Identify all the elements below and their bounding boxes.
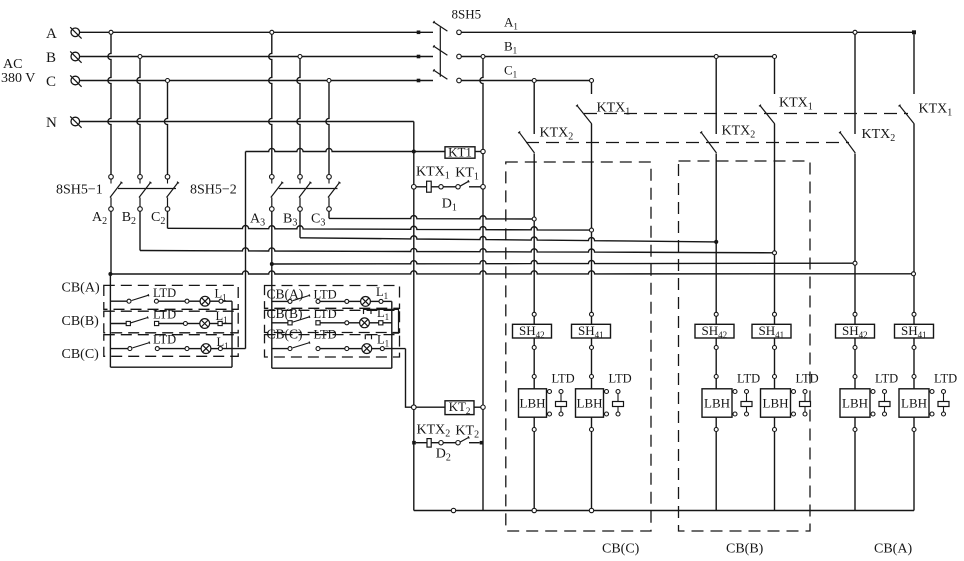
svg-text:KTX1: KTX1 [597, 101, 631, 118]
switch 8SH5 pole B [433, 45, 461, 59]
label A2 [92, 210, 107, 227]
switch box CB(B) SH41 [752, 323, 791, 340]
svg-text:LBH: LBH [520, 396, 546, 411]
node CB(C) SH42 upper [532, 312, 536, 316]
label 8SH5-2 [190, 183, 237, 198]
label KTX1 (CB B) [779, 96, 813, 113]
contact KTX1 of CB(A) [899, 105, 915, 124]
wire A1 [461, 31, 914, 33]
linkage 8SH5-1 [118, 188, 176, 190]
lamp row3 box2 (switch, LTD, lamp L1) [272, 342, 406, 354]
node CB(C) SH41 below switch [590, 346, 594, 350]
label LTD box1 row1 [153, 286, 176, 300]
wire box2 bottom [272, 367, 392, 369]
wire D2 row [416, 442, 480, 444]
label A1 [504, 15, 518, 32]
label CB(A) box2 [267, 287, 304, 302]
ballast LBH (CB(C) SH41) [576, 389, 604, 417]
svg-text:CB(C): CB(C) [602, 542, 640, 557]
svg-text:KTX1: KTX1 [779, 96, 813, 113]
terminal B (AC supply) [70, 51, 81, 62]
junction line3 end [714, 240, 718, 244]
junction KT1-N [412, 150, 416, 154]
wire drop B to 8SH5-2 [297, 59, 300, 175]
label C1 [504, 63, 517, 80]
terminal D2 left [412, 441, 416, 445]
enclosure CB(A) row1 (dashed) [104, 285, 238, 309]
svg-text:8SH5: 8SH5 [452, 7, 482, 22]
svg-text:LBH: LBH [577, 396, 603, 411]
label L1 box1 row2 [216, 309, 228, 325]
svg-text:8SH5−2: 8SH5−2 [190, 183, 237, 198]
label L1 box2 row3 [377, 333, 389, 349]
svg-text:LTD: LTD [934, 372, 957, 386]
lamp holder bracket row3 [365, 335, 371, 339]
wire D1 row [416, 186, 481, 188]
label LTD box1 row3 [153, 333, 176, 347]
node line6 end [912, 272, 916, 276]
wire C3 feeder (line1) [329, 211, 534, 219]
svg-text:KT1: KT1 [448, 145, 472, 160]
label KTX2 (CB C) [540, 126, 574, 143]
svg-text:B: B [46, 50, 56, 66]
wire column CB(A)-SH42 [854, 35, 856, 325]
contact KTX2 of CB(C) [518, 132, 534, 154]
label B2 [122, 210, 136, 227]
lamp row2 box1 (switch, LTD, lamp L1) [110, 316, 232, 328]
node bus left [451, 508, 455, 512]
svg-text:KTX1: KTX1 [416, 165, 450, 182]
node CB(B) SH42 below ballast [714, 428, 718, 432]
svg-text:A: A [46, 26, 57, 42]
wire box1 right [231, 301, 233, 367]
node CB(C) SH41 below ballast [590, 428, 594, 432]
svg-text:CB(B): CB(B) [62, 314, 100, 329]
svg-text:CB(A): CB(A) [62, 281, 100, 296]
lamp row1 box2 (switch, LTD, lamp L1) [272, 294, 392, 306]
node CB(A) SH42 above ballast [853, 375, 857, 379]
svg-text:C: C [46, 74, 56, 90]
label D1 [442, 197, 457, 214]
node CB(C) SH41 upper [590, 312, 594, 316]
node C1 end [590, 79, 594, 83]
lamp row1 box1 (switch, LTD, lamp L1) [110, 294, 232, 306]
node CB(A) SH42 upper [853, 312, 857, 316]
node KT2 left [412, 405, 417, 410]
wire drop C to 8SH5-2 [326, 83, 329, 175]
node line5 end [853, 261, 857, 265]
wire bottom bus [414, 510, 914, 512]
enclosure CB(C) row3 box2 (dashed) [265, 335, 400, 357]
wire B1 [461, 56, 774, 58]
svg-text:LBH: LBH [704, 396, 730, 411]
label B [46, 50, 56, 66]
node CB(B) SH41 upper [773, 312, 777, 316]
label LTD (CB(C) SH42) [552, 372, 575, 386]
label KT1 (D1 row) [455, 166, 479, 183]
label CB(C) box2 [267, 327, 303, 342]
starter LTD (CB(C) SH42) [547, 390, 567, 417]
terminal A (AC supply) [70, 27, 81, 38]
node CB(A) SH41 above ballast [912, 375, 916, 379]
terminal square B [417, 55, 421, 59]
wire holder row2 return [371, 309, 399, 333]
svg-text:LTD: LTD [314, 288, 337, 302]
wire neutral N [80, 121, 414, 123]
wire C2 feeder (line2) [168, 211, 592, 230]
wire column CB(C)-SH41 [591, 83, 593, 325]
label L1 box1 row1 [215, 287, 227, 303]
svg-text:LBH: LBH [842, 396, 868, 411]
lamp row2 box2 (switch, LTD, lamp L1) [272, 316, 392, 328]
label KTX1 (CB A) [919, 102, 953, 119]
wire KT1 left [246, 148, 446, 151]
switch 8SH5-2 pole B [298, 175, 312, 212]
switch 8SH5 pole A [433, 21, 461, 35]
terminal square C [417, 79, 421, 83]
wire drop A to 8SH5-2 [269, 35, 272, 175]
label L1 box1 row3 [217, 335, 229, 351]
wire box2 left feed [271, 264, 273, 368]
wire phase C to switch [80, 80, 433, 82]
label CB(A) [874, 542, 912, 557]
switch 8SH5-1 pole C [165, 175, 179, 212]
wire drop B to 8SH5-1 [137, 59, 140, 175]
wire KT1 feed vertical [245, 152, 247, 349]
node CB(B) SH42 upper [714, 312, 718, 316]
svg-text:LTD: LTD [153, 308, 176, 322]
node KT1-B1 [481, 149, 485, 153]
svg-text:8SH5−1: 8SH5−1 [56, 183, 103, 198]
node CB(A) SH41 below ballast [912, 428, 916, 432]
wire phase B to switch [80, 56, 433, 58]
svg-text:CB(A): CB(A) [874, 542, 912, 557]
node CB(C) SH42 below ballast [532, 428, 536, 432]
node tap A-bank2 [270, 30, 274, 34]
terminal square A1 end [912, 30, 916, 34]
node CB(A) SH41 below switch [912, 346, 916, 350]
switch box CB(A) SH41 [895, 323, 934, 340]
ballast LBH (CB(B) SH41) [761, 389, 791, 417]
svg-text:CB(C): CB(C) [267, 327, 303, 342]
svg-text:LTD: LTD [153, 286, 176, 300]
label D2 [436, 447, 451, 464]
wire column CB(B)-SH42 [715, 59, 717, 325]
lamp row3 box1 (switch, LTD, lamp L1) [110, 342, 245, 354]
label C [46, 74, 56, 90]
label A3 [250, 212, 265, 229]
node tap C-bank1 [166, 79, 170, 83]
wire B3 feeder (line3) [300, 211, 716, 242]
node line2 end [590, 228, 594, 232]
relay coil KT2 [445, 399, 474, 416]
wire box2 row3 to KT2 [406, 349, 412, 408]
svg-text:LBH: LBH [763, 396, 789, 411]
label KTX1 (D1 row) [416, 165, 450, 182]
label KT2 (D2 row) [455, 424, 479, 441]
switch 8SH5-1 pole B [138, 175, 152, 212]
switch 8SH5 linkage bar [439, 27, 441, 77]
wire column CB(A) SH42 lower [854, 338, 856, 511]
label LTD box2 row1 [314, 288, 337, 302]
switch box CB(C) SH41 [572, 323, 611, 340]
starter LTD (CB(C) SH41) [604, 390, 624, 417]
svg-text:N: N [46, 115, 57, 131]
label N [46, 115, 57, 131]
node tap C-bank2 [327, 79, 331, 83]
label A [46, 26, 57, 42]
label CB(B) [726, 542, 764, 557]
starter LTD (CB(A) SH42) [870, 390, 890, 417]
ballast LBH (CB(C) SH42) [519, 389, 547, 417]
label C2 [151, 210, 165, 227]
contact KTX1 of CB(B) [759, 105, 775, 124]
junction A3 [270, 262, 274, 266]
enclosure CB(B) row2 (dashed) [104, 311, 238, 333]
wire column CB(B) SH42 lower [715, 338, 717, 511]
label KTX2 (D2 row) [417, 423, 451, 440]
wire B1 vertical [480, 59, 483, 511]
terminal square A [417, 31, 421, 35]
switch 8SH5 pole C [433, 69, 461, 83]
svg-text:CB(B): CB(B) [726, 542, 764, 557]
wire N vertical [413, 122, 415, 511]
contact KTX1 of CB(C) [576, 105, 592, 124]
wire drop C to 8SH5-1 [164, 83, 167, 175]
linkage KTX2 (dashed) [526, 142, 849, 144]
node CB(C) SH42 above ballast [532, 375, 536, 379]
linkage 8SH5-2 [279, 188, 338, 190]
node tap B-bank2 [298, 55, 302, 59]
switch box CB(B) SH42 [695, 323, 734, 340]
node CB(A) SH41 upper [912, 312, 916, 316]
node line1 end [532, 217, 536, 221]
lamp holder bracket row2 [364, 309, 372, 314]
wire A2 feeder (line6) [110, 211, 913, 274]
terminal D2 right [480, 441, 484, 445]
node CB(A) SH42 below switch [853, 346, 857, 350]
node CB(C) SH42 below switch [532, 346, 536, 350]
svg-text:KTX2: KTX2 [722, 124, 756, 141]
label LTD box1 row2 [153, 308, 176, 322]
svg-text:KTX1: KTX1 [919, 102, 953, 119]
wire KT1 right [475, 151, 481, 153]
starter LTD (CB(B) SH41) [791, 390, 811, 417]
distribution box CB(C) (dashed) [506, 162, 651, 531]
wire A3 feeder (line5) [272, 211, 855, 264]
label KTX2 (CB B) [722, 124, 756, 141]
wire KT2 left [416, 406, 445, 408]
wire box2 right [391, 301, 393, 368]
node CB(B) SH42 below switch [714, 346, 718, 350]
wire box1 left feed [109, 274, 111, 367]
svg-text:LBH: LBH [901, 396, 927, 411]
node D1 right [481, 185, 486, 190]
label LTD (CB(C) SH41) [609, 372, 632, 386]
wire column CB(C) SH41 lower [591, 338, 593, 511]
terminal N (AC supply) [70, 116, 81, 127]
node tap A-bank1 [109, 30, 113, 34]
svg-text:LTD: LTD [314, 328, 337, 342]
node bus CB(C)-SH42 [532, 508, 536, 512]
svg-text:KTX2: KTX2 [540, 126, 574, 143]
ballast LBH (CB(B) SH42) [702, 389, 732, 417]
switch 8SH5-2 pole A [270, 175, 284, 212]
ballast LBH (CB(A) SH42) [840, 389, 870, 417]
wire C1 [461, 80, 591, 82]
lamp D1 [427, 181, 432, 192]
svg-text:CB(C): CB(C) [62, 347, 100, 362]
node B1 end [773, 55, 777, 59]
node bus CB(C)-SH41 [589, 508, 593, 512]
label B1 [504, 39, 517, 56]
svg-text:CB(B): CB(B) [267, 306, 303, 321]
wire column CB(A)-SH41 [913, 34, 915, 324]
enclosure CB(B) row2 box2 (dashed) [265, 310, 400, 332]
switch box CB(C) SH42 [513, 323, 552, 340]
node CB(C) SH41 above ballast [590, 375, 594, 379]
wire column CB(B) SH41 lower [774, 338, 776, 511]
node CB(B) SH42 above ballast [714, 375, 718, 379]
label LTD (CB(A) SH41) [934, 372, 957, 386]
wire column CB(C) SH42 lower [533, 338, 535, 511]
terminal C (AC supply) [70, 75, 81, 86]
junction A2 [108, 272, 112, 276]
relay coil KT1 [445, 145, 475, 160]
label LTD box2 row2 [314, 307, 337, 321]
node CB(A) SH42 below ballast [853, 428, 857, 432]
label 8SH5-1 [56, 183, 103, 198]
svg-text:LTD: LTD [552, 372, 575, 386]
label CB(A) box1 [62, 281, 100, 296]
label CB(B) box2 [267, 306, 303, 321]
enclosure CB(C) row3 (dashed) [104, 335, 238, 357]
node D1 left [412, 185, 417, 190]
svg-text:KTX2: KTX2 [862, 127, 896, 144]
node A1-CB(A) [853, 30, 857, 34]
wire column CB(B)-SH41 [774, 59, 776, 325]
node CB(B) SH41 above ballast [773, 375, 777, 379]
node KT2-B1 [481, 405, 485, 409]
switch 8SH5-2 pole C [327, 175, 341, 212]
wire box1 bottom [110, 366, 232, 368]
wire column CB(C)-SH42 [533, 83, 535, 325]
label KTX1 (CB C) [597, 101, 631, 118]
label C3 [311, 212, 325, 229]
starter LTD (CB(B) SH42) [732, 390, 752, 417]
contact KT2 (D2 row) [439, 436, 470, 445]
enclosure CB(A) row1 box2 (dashed) [265, 286, 400, 309]
svg-text:LTD: LTD [153, 333, 176, 347]
label LTD (CB(B) SH41) [796, 372, 819, 386]
label KTX2 (CB A) [862, 127, 896, 144]
svg-text:LTD: LTD [875, 372, 898, 386]
label LTD box2 row2 [314, 328, 337, 342]
label LTD (CB(A) SH42) [875, 372, 898, 386]
node C1-CB(C) [532, 79, 536, 83]
contact KTX2 of CB(B) [700, 132, 716, 154]
node CB(B) SH41 below switch [773, 346, 777, 350]
wire B2 feeder (line4) [140, 211, 775, 253]
label CB(C) [602, 542, 640, 557]
wire column CB(A) SH41 lower [913, 338, 915, 511]
switch 8SH5-1 pole A [109, 175, 123, 212]
label CB(C) box1 [62, 347, 100, 362]
svg-text:LTD: LTD [737, 372, 760, 386]
node CB(B) SH41 below ballast [773, 428, 777, 432]
ballast LBH (CB(A) SH41) [899, 389, 929, 417]
linkage KTX1 (dashed) [584, 113, 908, 115]
label AC 380 V [1, 57, 35, 86]
contact KT1 (D1 row) [439, 180, 469, 189]
label 8SH5 [452, 7, 482, 22]
label B3 [283, 212, 297, 229]
svg-text:AC: AC [3, 57, 22, 72]
wire KT2 right [474, 406, 481, 408]
contact KTX2 of CB(A) [839, 132, 855, 154]
label L1 box2 row1 [376, 285, 388, 301]
node B1-KT [481, 55, 485, 59]
node line4 end [773, 251, 777, 255]
label CB(B) box1 [62, 314, 100, 329]
svg-text:LTD: LTD [314, 307, 337, 321]
node tap B-bank1 [138, 55, 142, 59]
svg-text:CB(A): CB(A) [267, 287, 304, 302]
lamp D2 [427, 439, 431, 448]
svg-text:KTX2: KTX2 [417, 423, 451, 440]
svg-text:LTD: LTD [796, 372, 819, 386]
svg-text:LTD: LTD [609, 372, 632, 386]
switch box CB(A) SH42 [836, 323, 875, 340]
node B1-CB(B) [714, 55, 718, 59]
label L1 box2 row2 [377, 306, 389, 322]
distribution box CB(B) (dashed) [679, 161, 811, 531]
starter LTD (CB(A) SH41) [929, 390, 949, 417]
wire phase A to switch [80, 31, 433, 33]
label LTD (CB(B) SH42) [737, 372, 760, 386]
svg-text:380 V: 380 V [1, 71, 35, 86]
wire drop A to 8SH5-1 [108, 35, 111, 175]
